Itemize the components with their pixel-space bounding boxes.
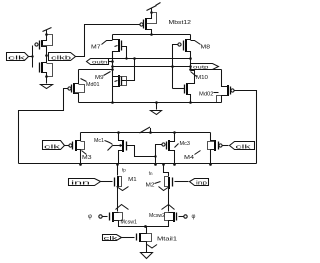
svg-text:fn: fn xyxy=(149,171,153,176)
svg-text:Mcsw1: Mcsw1 xyxy=(121,220,138,226)
svg-text:Mc1: Mc1 xyxy=(94,138,104,144)
svg-text:M4: M4 xyxy=(184,155,194,161)
svg-text:fp: fp xyxy=(122,168,126,173)
svg-text:outp: outp xyxy=(193,65,209,70)
svg-text:clk: clk xyxy=(44,144,61,150)
svg-text:Md02: Md02 xyxy=(199,91,214,97)
svg-text:Mcsw2: Mcsw2 xyxy=(149,213,165,219)
svg-text:φ: φ xyxy=(88,214,92,220)
svg-text:M8: M8 xyxy=(201,44,211,50)
svg-text:M3: M3 xyxy=(82,155,92,161)
svg-text:Mbst12: Mbst12 xyxy=(169,20,192,26)
svg-text:clk: clk xyxy=(236,144,252,150)
svg-text:M1: M1 xyxy=(128,177,137,183)
svg-text:M9: M9 xyxy=(95,75,104,81)
svg-text:clkb: clkb xyxy=(51,55,71,61)
svg-text:clk: clk xyxy=(104,236,119,242)
svg-text:Mc3: Mc3 xyxy=(180,141,191,147)
svg-text:φ: φ xyxy=(192,214,196,220)
svg-text:outn: outn xyxy=(92,59,108,64)
svg-text:clk: clk xyxy=(8,56,26,62)
svg-text:M2: M2 xyxy=(146,183,155,189)
svg-text:Md01: Md01 xyxy=(86,82,100,88)
svg-text:M7: M7 xyxy=(91,44,101,50)
svg-text:Mtail1: Mtail1 xyxy=(157,237,177,243)
svg-text:inn: inn xyxy=(71,180,91,186)
svg-text:inp: inp xyxy=(196,180,207,186)
svg-text:M10: M10 xyxy=(196,75,208,81)
